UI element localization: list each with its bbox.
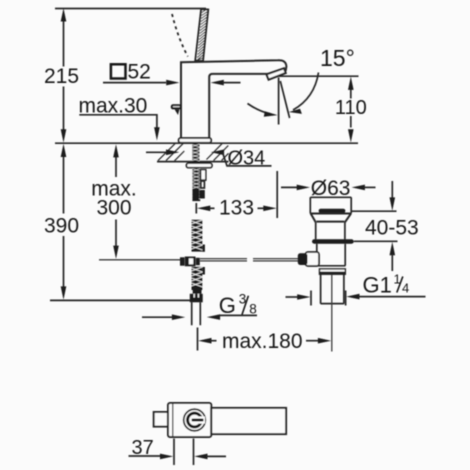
dimension 390 vertical line [63,156,65,288]
dimension G1-1/4 leader with left arrow [346,294,359,300]
pull rod knob on body rear [171,104,181,109]
dimension 37 right arrow [194,454,207,460]
leader max.30 down arrow [154,127,160,140]
aerator tip [267,68,286,79]
dimension max180 left arrow [198,338,211,344]
water stream 15deg slanted line [280,81,289,118]
threaded shank (dark with thread texture) [192,168,200,201]
deck cross-section bottom line [157,161,229,163]
dimension 215 bottom arrow [61,129,67,142]
pop-up plug black disc [319,209,346,213]
braided hose upper section [192,220,205,252]
faucet body and spout outline [181,60,286,137]
rod clamp fitting [180,257,200,267]
svg-text:110: 110 [335,97,367,119]
svg-text:Ø34: Ø34 [228,147,266,169]
angle arc left with arrow [248,104,271,115]
rod attachment cylinder [306,252,320,266]
wire bottom reference line of 390 [50,299,190,301]
braided hose lower section [192,267,205,290]
dimension max180 left extension line [197,328,199,351]
pop-up tail pipe [321,274,344,304]
pop-up rod clevis [201,181,205,188]
G3/8 hose nut [193,288,202,294]
dimension max300 top arrow [113,144,119,157]
svg-text:215: 215 [44,65,79,88]
dimension 40-53 bottom reference line [354,240,398,242]
dimension Ø63 right arrow [352,185,365,191]
pop-up centerline [331,275,333,352]
dimension 52 right-side arrow [211,80,224,86]
dimension max180 right arrow [306,340,319,342]
plan view body inner line [172,404,174,437]
plan view GROHE logo ring [188,413,202,427]
pop-up O-ring [312,239,354,243]
dimension 390 bottom arrow [61,286,67,299]
under-deck washer [186,163,212,168]
pop-up flange taper [310,214,352,223]
dimension 37 left arrow [160,454,173,460]
pop-up horizontal rod [200,259,298,261]
base plate [179,138,212,143]
svg-text:G: G [219,293,236,318]
svg-text:390: 390 [44,215,79,238]
svg-text:40-53: 40-53 [365,217,419,240]
plan view cartridge outer circle [184,409,206,431]
dimension 133 right arrow [258,207,264,209]
plan view lever end [154,412,168,427]
dimension Ø63 left arrow [281,186,298,188]
dimension 215 top arrow [61,8,67,21]
lever handle (hatched) [195,9,208,61]
dimension 133 left arrow [197,206,210,212]
dimension 110 top arrow [348,77,354,90]
dimension 110 vertical line [350,89,352,128]
svg-text:300: 300 [96,197,131,220]
deck hatch left [158,144,184,161]
hose crimp connectors [193,189,199,200]
plan view GROHE logo slot and bar [197,416,205,423]
deck hatch right [207,144,229,161]
leader to Ø34 label [223,152,272,166]
horizontal reference line at aerator level [278,75,359,77]
pop-up upper body sides [316,222,345,239]
rod left thin segment to max300 reference [99,259,180,261]
dimension Ø34 left arrow [146,151,167,153]
faucet spout underside and body right edge [209,74,268,138]
svg-text:52: 52 [128,60,151,83]
svg-text:G1: G1 [363,272,392,297]
pop-up lower body [317,244,346,266]
dimension G1-1/4 left extension line [310,291,312,306]
dimension G3/8 right arrow and leader [207,314,220,320]
svg-text:133: 133 [219,197,254,220]
wire top extension line from lever top to 215 dimension [55,8,206,10]
dimension 37 right extension line [193,439,195,466]
label square-52 symbol [111,64,126,78]
dimension max300 vertical line [115,157,117,246]
rod attachment knob [298,253,308,265]
plan view body square [168,403,211,437]
pop-up rod guide [201,170,206,180]
dimension 40-53 top reference line [352,210,397,212]
dimension 52 leader line with right arrow [103,82,166,84]
dimension G1-1/4 left arrow [286,296,299,298]
threaded shank passing through deck [192,144,199,164]
supply tube [192,302,201,325]
dimension 110 bottom arrow [348,129,354,142]
svg-text:max.180: max.180 [222,330,303,353]
dimension 390 top arrow [61,144,67,157]
leader max.30 [79,115,157,128]
svg-text:15°: 15° [320,45,355,71]
water stream vertical line [278,78,280,125]
dimension G3/8 left arrow [142,316,173,318]
dimension 215 vertical line [63,18,65,131]
dimension 133 left extension tick [195,203,197,214]
svg-text:4: 4 [402,280,409,295]
dimension Ø34 right arrow [211,150,224,156]
dimension G1-1/4 right extension line [345,291,347,306]
lever swing dashed arc [172,14,188,57]
dimension 40-53 top arrow [391,181,393,199]
angle arc right with arrow [293,73,319,111]
spout tip extension line lower segment [276,171,278,218]
dimension max300 bottom arrow [113,246,119,259]
countertop deck top line [55,142,358,144]
svg-text:8: 8 [249,302,257,317]
plan view spout rectangle [211,408,286,434]
dimension 40-53 bottom arrow [390,242,396,255]
dimension 37 left extension line [173,439,175,466]
pop-up waste top cylinder [310,197,351,213]
pop-up bottom ring [320,269,346,274]
